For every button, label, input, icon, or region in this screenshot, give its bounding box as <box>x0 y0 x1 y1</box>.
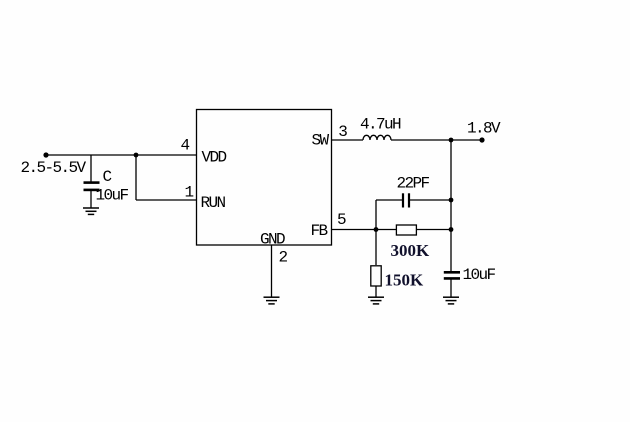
svg-text:5: 5 <box>337 211 346 229</box>
wire VIN to VDD <box>46 154 197 156</box>
node 1.8V terminal dot <box>479 137 484 142</box>
capacitor 22PF plates <box>403 193 409 207</box>
wire output down to 22PF node <box>450 140 452 200</box>
svg-text:10uF: 10uF <box>463 266 496 284</box>
ground 150K <box>368 297 384 304</box>
wire 300K to output node <box>416 229 451 231</box>
svg-text:2.5-5.5V: 2.5-5.5V <box>21 159 87 177</box>
svg-text:GND: GND <box>260 231 285 249</box>
svg-text:4.7uH: 4.7uH <box>360 116 401 134</box>
inductor L 4.7uH <box>363 135 391 140</box>
op-amp U1 IC body <box>197 110 332 246</box>
node SW/output junction <box>449 138 454 143</box>
capacitor 10uF output plates <box>444 272 460 278</box>
wire SW to inductor <box>332 139 364 141</box>
wire output cap top lead <box>450 230 452 272</box>
wire junction down to RUN row <box>135 155 137 200</box>
wire 22PF right plate to node <box>410 199 451 201</box>
ground input cap <box>83 208 99 214</box>
wire C1 top lead <box>90 155 92 182</box>
wire C1 bottom lead <box>90 191 92 208</box>
svg-text:1: 1 <box>185 184 194 202</box>
svg-text:4: 4 <box>181 136 190 154</box>
svg-text:VDD: VDD <box>202 149 227 167</box>
svg-text:300K: 300K <box>391 241 431 260</box>
node 22PF/output junction <box>449 198 454 203</box>
wire GND pin down <box>271 245 273 297</box>
svg-text:3: 3 <box>338 123 347 141</box>
ground IC GND <box>264 297 280 304</box>
wire FB node up to 22PF <box>375 200 377 230</box>
wire to 22PF left plate <box>376 199 402 201</box>
wire 150K top lead <box>375 230 377 266</box>
svg-text:1.8V: 1.8V <box>467 120 501 138</box>
svg-text:10uF: 10uF <box>96 187 129 205</box>
wire 150K bottom lead <box>375 286 377 297</box>
svg-text:22PF: 22PF <box>397 175 430 193</box>
wire inductor to output <box>391 139 482 141</box>
svg-text:150K: 150K <box>385 271 425 290</box>
capacitor C 10uF input plates <box>84 183 100 190</box>
node VIN terminal dot <box>43 152 48 157</box>
svg-text:SW: SW <box>312 132 330 150</box>
svg-text:C: C <box>103 168 112 186</box>
resistor 150K body <box>371 266 381 286</box>
resistor 300K body <box>396 225 416 235</box>
wire FB pin to node <box>332 229 377 231</box>
wire output cap bottom lead <box>450 279 452 297</box>
node VIN/RUN junction <box>134 153 139 158</box>
ground output cap <box>443 297 459 304</box>
wire FB node to 300K <box>376 229 396 231</box>
node 300K/C2 junction <box>449 227 454 232</box>
svg-text:2: 2 <box>279 249 288 267</box>
svg-text:RUN: RUN <box>201 194 226 212</box>
wire 22PF node down to FB node <box>450 200 452 230</box>
wire to RUN pin <box>136 199 197 201</box>
node FB junction <box>374 227 379 232</box>
svg-text:FB: FB <box>311 222 328 240</box>
